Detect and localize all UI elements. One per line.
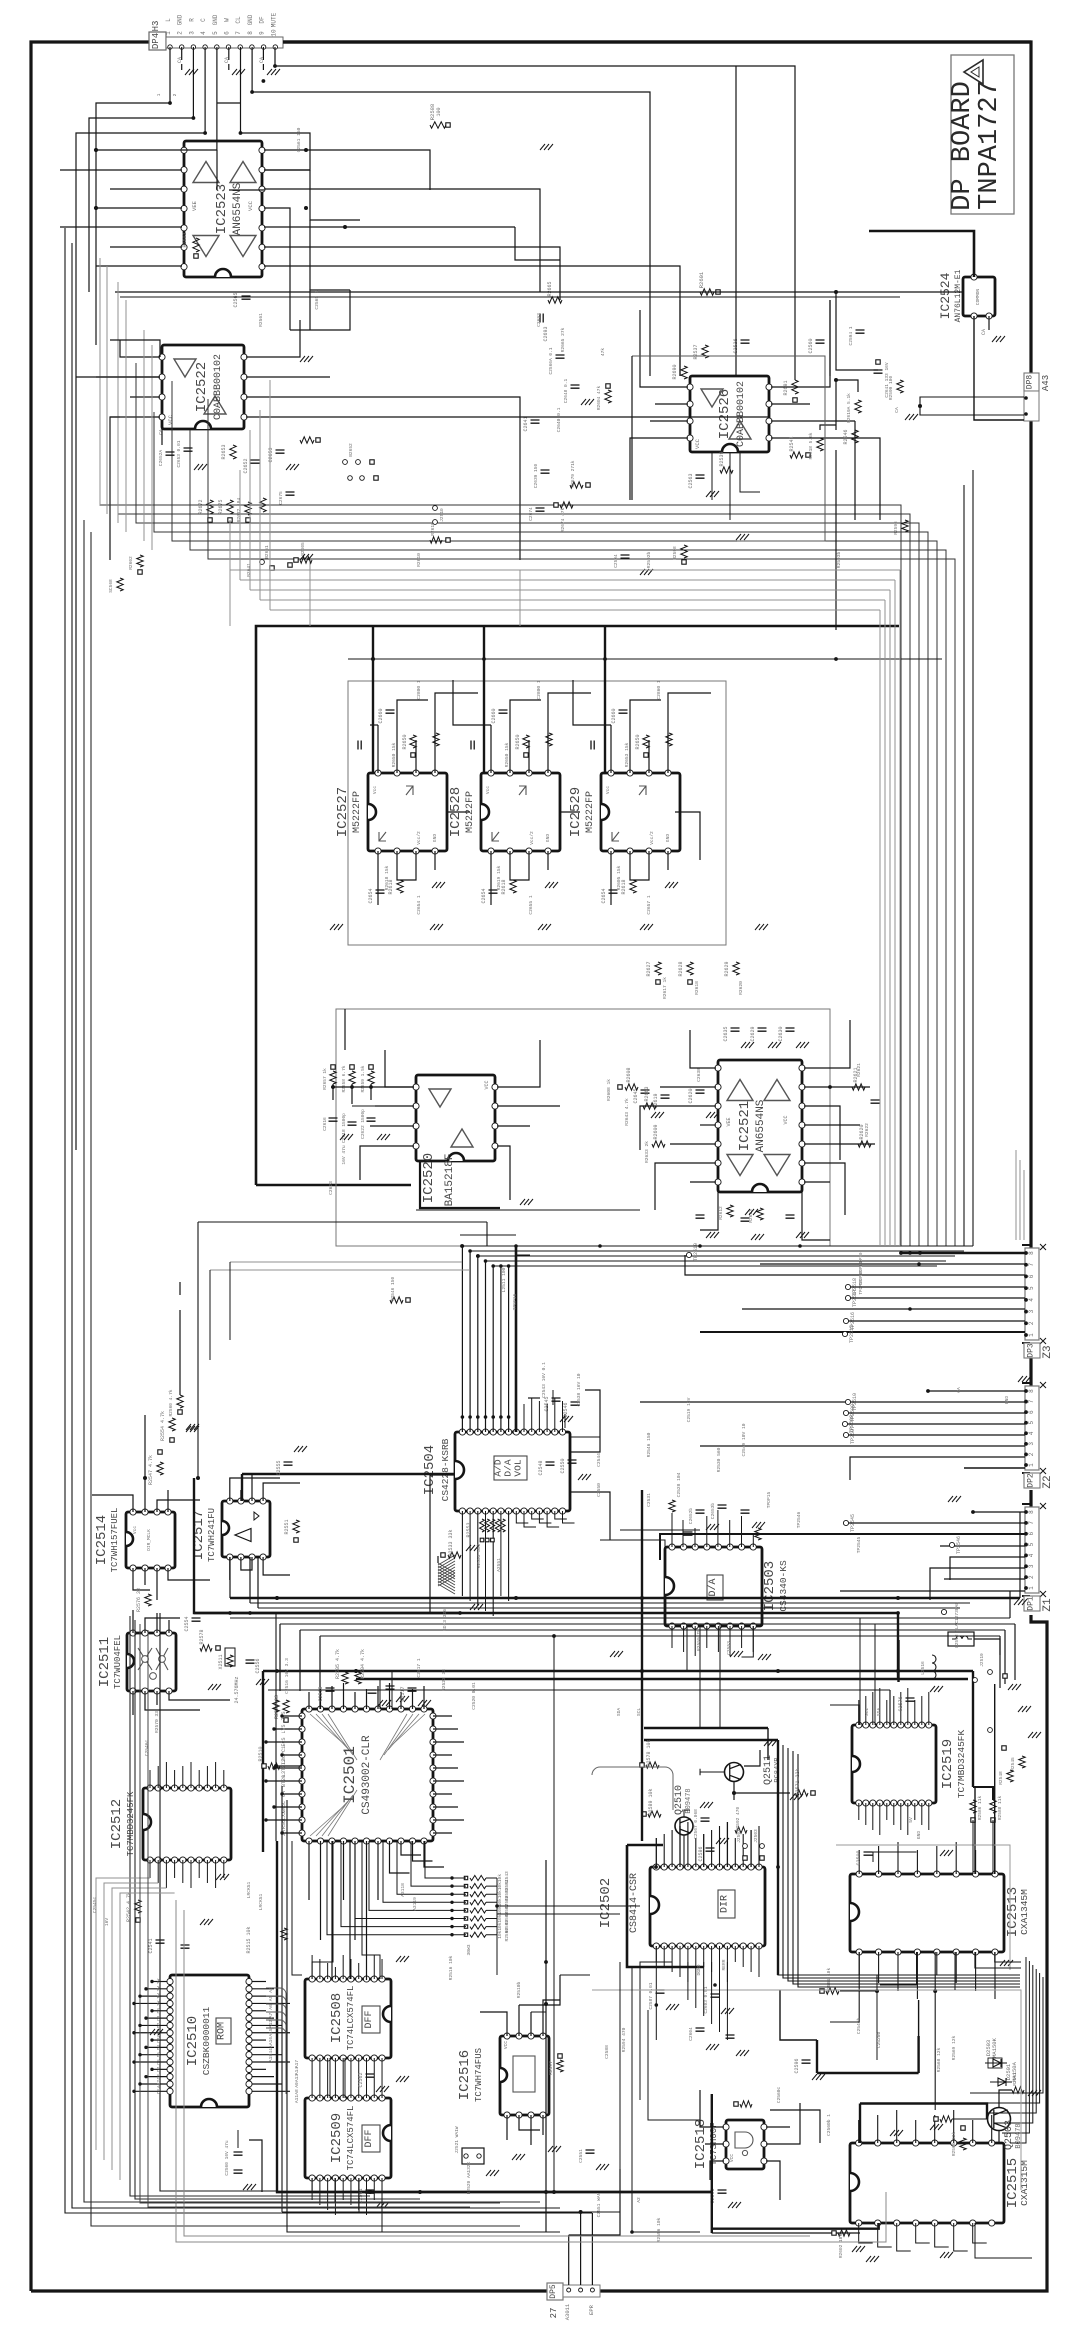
- svg-text:R2592b: R2592b: [646, 551, 652, 568]
- svg-text:VCC: VCC: [167, 414, 174, 425]
- wire: [530, 2115, 532, 2145]
- svg-text:BA15218F: BA15218F: [444, 1154, 456, 1207]
- wire: [140, 2054, 168, 2056]
- wire: [554, 1398, 556, 1432]
- wire: [252, 2083, 283, 2085]
- wire: [531, 2011, 546, 2013]
- svg-text:R2602 10k: R2602 10k: [838, 2234, 844, 2259]
- wire: [241, 1474, 243, 1501]
- wire: [92, 1495, 133, 1512]
- bus elbows ROM to DFF: [266, 1988, 286, 2094]
- svg-text:RERR: RERR: [721, 1959, 727, 1970]
- wire: [858, 1952, 860, 1975]
- wire: [401, 1841, 421, 1855]
- junction dot: [450, 1901, 453, 1904]
- svg-text:TP2517: TP2517: [852, 1289, 858, 1307]
- bus stub labels a: [268, 1987, 274, 2062]
- svg-text:IC2526: IC2526: [717, 389, 733, 439]
- wire: [700, 1192, 718, 1230]
- wire: [897, 1613, 899, 1679]
- res R2554: [160, 1411, 199, 1442]
- wire: [327, 2178, 329, 2210]
- resistor R2665: [547, 281, 562, 303]
- junction dot: [499, 1415, 503, 1419]
- wire: [447, 811, 470, 813]
- wire: [668, 693, 711, 773]
- wire: [252, 1988, 275, 1990]
- wire: [342, 1955, 344, 1979]
- wire: [96, 47, 170, 292]
- wire: [152, 2039, 168, 2041]
- resistor R2588: [429, 104, 450, 128]
- wire: [632, 1967, 700, 2232]
- wire: [734, 1792, 790, 1794]
- svg-text:DIR: DIR: [720, 1895, 731, 1913]
- wire: [644, 1739, 778, 1741]
- wire: [506, 2115, 508, 2140]
- wire: [543, 2000, 560, 2036]
- svg-text:LRCK51: LRCK51: [258, 1893, 264, 1910]
- svg-text:C2560 16V 47u: C2560 16V 47u: [224, 2140, 230, 2175]
- wire: [836, 380, 858, 430]
- svg-text:VCC: VCC: [484, 1080, 490, 1089]
- svg-text:C2555: C2555: [276, 1460, 282, 1475]
- wire: [952, 2118, 987, 2120]
- svg-text:C2556: C2556: [255, 1658, 261, 1673]
- misc right parts: [988, 1728, 1014, 1785]
- res R2561: [820, 1968, 839, 1995]
- wire: [975, 1850, 977, 1874]
- wire: [264, 189, 540, 230]
- res R2674: [554, 502, 573, 532]
- svg-text:R2675: R2675: [218, 499, 224, 514]
- svg-text:R2586 11k: R2586 11k: [977, 1796, 983, 1821]
- svg-text:DIR_MCLK: DIR_MCLK: [146, 1529, 152, 1551]
- wire: [369, 1841, 452, 1910]
- svg-text:A12: A12: [268, 2020, 274, 2028]
- wire: [156, 1691, 158, 1705]
- connector DP8 A43: [1024, 373, 1051, 421]
- wire: [916, 2223, 930, 2243]
- wire: [400, 1692, 402, 1709]
- wire: [547, 1511, 559, 1527]
- gnd ROM: [150, 1956, 409, 2082]
- wire: [515, 1246, 518, 1432]
- wire: [729, 452, 731, 520]
- wire: [157, 1500, 200, 1512]
- wire: [553, 1636, 555, 2192]
- svg-text:10k: 10k: [497, 1914, 503, 1922]
- wire: [804, 1163, 845, 1215]
- wire: [519, 2115, 540, 2130]
- svg-text:EPR: EPR: [588, 2304, 595, 2315]
- svg-text:C2563: C2563: [688, 473, 694, 488]
- wire: [365, 1967, 367, 1979]
- wire: [424, 1841, 444, 1867]
- wire: [146, 1988, 168, 1990]
- svg-text:10: 10: [270, 29, 277, 37]
- wire: [241, 47, 311, 170]
- wire: [660, 1534, 1025, 1560]
- svg-text:VCC: VCC: [729, 2154, 735, 2162]
- wire: [350, 2178, 352, 2205]
- wire: [893, 1696, 895, 1725]
- svg-text:R2561 10k: R2561 10k: [826, 1968, 832, 1993]
- wire: [741, 1516, 743, 1547]
- junction dot: [450, 1909, 453, 1912]
- wire: [921, 1803, 923, 1825]
- svg-text:9: 9: [259, 31, 266, 35]
- regulator IC2524 AN76L12M-E1: [938, 269, 995, 322]
- svg-text:Z2: Z2: [1042, 1475, 1054, 1488]
- wire: [320, 1635, 1000, 1637]
- res R2571: [795, 1768, 815, 1796]
- wire: [490, 851, 492, 905]
- wire: [148, 1630, 470, 2207]
- wire: [901, 1252, 1025, 1254]
- wire: [279, 1624, 281, 1691]
- wire: [76, 47, 205, 1150]
- wire: [879, 1688, 881, 1725]
- svg-text:C2641 133 16V: C2641 133 16V: [884, 362, 890, 397]
- wire: [528, 740, 530, 773]
- svg-text:CA: CA: [259, 57, 265, 63]
- svg-text:C2800 1: C2800 1: [416, 680, 422, 700]
- wire: [252, 2010, 267, 2012]
- wire: [483, 626, 485, 773]
- wire: [216, 150, 218, 190]
- wire: [311, 2178, 313, 2200]
- wire: [371, 1125, 414, 1127]
- svg-text:R2620: R2620: [738, 981, 744, 995]
- svg-text:R2596: R2596: [893, 521, 899, 535]
- wire: [663, 1834, 665, 1867]
- svg-text:A8: A8: [294, 2089, 300, 2095]
- wire: [711, 1962, 713, 2024]
- wire: [430, 1475, 455, 1613]
- wire: [252, 2017, 275, 2019]
- svg-text:IC2503: IC2503: [762, 1561, 778, 1611]
- svg-text:30W3: 30W3: [466, 1944, 472, 1955]
- wire: [515, 1400, 517, 1432]
- wire: [268, 1689, 890, 1691]
- resistor R2546: [843, 429, 858, 444]
- svg-text:VEE: VEE: [726, 1117, 732, 1126]
- wire: [309, 220, 311, 290]
- wire: [229, 1557, 231, 1598]
- svg-text:DGND: DGND: [696, 1964, 702, 1975]
- wire: [560, 811, 580, 813]
- wire: [252, 2024, 283, 2026]
- DAC IC2504 CS4228-KSRB: [422, 1429, 570, 1514]
- wire: [675, 812, 700, 860]
- wire: [604, 626, 606, 773]
- wire: [251, 1474, 253, 1501]
- wire: [685, 1255, 1025, 1275]
- wire: [667, 851, 669, 870]
- wire: [848, 1412, 1025, 1414]
- wire: [140, 1995, 168, 1997]
- svg-text:TP2507: TP2507: [850, 1426, 856, 1444]
- junction dot: [507, 1415, 511, 1419]
- wire: [711, 2094, 713, 2233]
- wire: [377, 725, 379, 773]
- res R2595: [832, 2230, 850, 2258]
- cap C2648: [563, 379, 594, 405]
- gnd near Q2510: [700, 1802, 713, 1808]
- svg-text:CS4340-KS: CS4340-KS: [778, 1560, 789, 1612]
- svg-text:C2652b: C2652b: [688, 1508, 694, 1525]
- wire: [397, 700, 428, 773]
- svg-text:VOL: VOL: [513, 1459, 524, 1476]
- wire: [372, 626, 374, 773]
- wire: [350, 2058, 352, 2098]
- res R2612 pair: [718, 1205, 763, 1223]
- wire: [198, 1770, 200, 1788]
- wire: [240, 1490, 242, 1501]
- svg-text:2: 2: [172, 93, 178, 96]
- wire: [377, 1686, 379, 1709]
- svg-text:VCC: VCC: [247, 200, 254, 211]
- wire: [699, 1636, 701, 1728]
- wire: [546, 1404, 548, 1432]
- wire: [817, 2072, 919, 2074]
- wire: [879, 480, 881, 520]
- wire: [899, 570, 901, 1246]
- svg-text:C2515: C2515: [318, 1686, 324, 1701]
- svg-text:C2596: C2596: [794, 2058, 800, 2073]
- wire: [742, 1946, 744, 1967]
- res R2650c: [108, 578, 123, 593]
- cap C2509: [856, 1850, 873, 1865]
- svg-text:10k: 10k: [497, 1890, 503, 1898]
- wire: [229, 1262, 231, 1340]
- svg-text:C2550: C2550: [560, 1458, 566, 1473]
- wire: [370, 724, 378, 726]
- wire: [804, 1143, 875, 1145]
- wire: [900, 1803, 902, 1830]
- wire: [327, 1841, 452, 1935]
- wire: [508, 1266, 510, 1432]
- wire: [125, 300, 127, 532]
- wire: [874, 1624, 876, 1725]
- wire: [766, 2126, 790, 2128]
- wire: [700, 1124, 716, 1126]
- res R2589: [642, 1788, 661, 1817]
- svg-text:C2545c: C2545c: [92, 1896, 98, 1913]
- junction dot: [552, 2190, 556, 2194]
- wire: [687, 1822, 689, 1867]
- wire: [256, 1184, 411, 1187]
- wire: [174, 1860, 176, 1878]
- wire: [934, 1952, 936, 2110]
- junction dots dp4: [168, 101, 172, 105]
- res R2672b: [236, 498, 251, 523]
- wire: [246, 376, 330, 378]
- svg-text:R2643 4.7k: R2643 4.7k: [624, 1098, 630, 1126]
- wire: [76, 376, 160, 378]
- svg-text:R2541: R2541: [789, 436, 795, 451]
- svg-text:ECS: ECS: [281, 1737, 287, 1746]
- wire: [134, 2090, 168, 2092]
- svg-text:R2504 4.7k: R2504 4.7k: [360, 1649, 366, 1679]
- op-amp IC2527 M5222FP: [335, 770, 447, 854]
- wire: [391, 1671, 393, 1709]
- wire: [804, 1106, 840, 1160]
- svg-text:C2554: C2554: [184, 1616, 190, 1631]
- wire: [350, 1959, 352, 1979]
- wire: [210, 1269, 470, 1271]
- wire: [793, 1751, 1020, 1984]
- caps under IC2522: [158, 429, 207, 470]
- capacitor C2693: [540, 314, 549, 342]
- wire: [570, 1390, 600, 1452]
- wire: [283, 40, 1031, 43]
- junction dots bus7: [228, 1611, 232, 1615]
- wire: [263, 1557, 290, 1575]
- svg-text:C2638: C2638: [696, 1068, 702, 1082]
- wire: [729, 1520, 731, 1547]
- wire: [146, 2017, 168, 2019]
- svg-text:2: 2: [177, 31, 184, 35]
- wire: [916, 1952, 918, 1999]
- wire: [974, 316, 1024, 420]
- wire: [390, 1841, 410, 1873]
- junction dot: [484, 1415, 488, 1419]
- res R2593: [734, 2101, 752, 2107]
- res R2545: [1010, 1756, 1025, 1771]
- wire: [548, 693, 591, 773]
- wire: [381, 2058, 383, 2098]
- wire: [973, 1511, 1025, 1513]
- resistor cluster near IC2523: [198, 498, 266, 522]
- svg-text:5: 5: [1028, 1421, 1035, 1425]
- caps row under IC2502: [688, 2027, 749, 2056]
- wire: [640, 1401, 1025, 1403]
- wire: [477, 1511, 479, 1606]
- wire: [1002, 1961, 1029, 2133]
- svg-text:R2633 2k: R2633 2k: [644, 1141, 650, 1163]
- svg-text:SDA: SDA: [876, 1708, 882, 1717]
- wire: [972, 2120, 974, 2143]
- wire: [146, 2046, 168, 2048]
- wire: [486, 1222, 488, 1246]
- wire: [917, 2036, 919, 2073]
- svg-text:R2672: R2672: [198, 499, 204, 514]
- svg-text:C2860 1: C2860 1: [656, 680, 662, 700]
- wire: [433, 1741, 464, 1743]
- electrolytic under x368: [368, 879, 403, 903]
- wire: [972, 1820, 974, 1874]
- wire: [497, 1905, 640, 1907]
- svg-text:R2610: R2610: [416, 553, 422, 567]
- connector Z2 DP2: [1022, 1382, 1054, 1489]
- wire: [944, 1578, 1025, 1580]
- wire: [135, 1620, 420, 2199]
- gnd IC2513 top: [940, 1850, 1013, 1966]
- wire: [872, 1692, 874, 1725]
- wire: [1014, 1624, 1016, 1680]
- svg-text:C2546c: C2546c: [144, 1739, 150, 1756]
- wire: [879, 1803, 881, 1835]
- svg-text:C2541: C2541: [148, 1938, 154, 1953]
- res cluster right of IC2511: [199, 1629, 269, 1690]
- svg-text:IC2519: IC2519: [940, 1739, 956, 1789]
- svg-text:R2530 560: R2530 560: [716, 1447, 722, 1472]
- wire: [470, 1250, 964, 1252]
- coil L2513 TLAC1273BAL: [948, 1602, 974, 1648]
- resistor R2541: [789, 436, 810, 458]
- svg-text:1: 1: [1028, 1333, 1035, 1337]
- svg-text:R2505 4.7k: R2505 4.7k: [335, 1649, 341, 1679]
- wire: [420, 1161, 500, 1208]
- wire: [846, 1434, 1025, 1436]
- res R2581: [274, 1695, 289, 1722]
- wire: [846, 1522, 1025, 1524]
- wire: [542, 2115, 544, 2135]
- wire: [878, 1952, 880, 1983]
- wire: [263, 1670, 973, 1672]
- wire: [118, 394, 910, 1246]
- svg-text:R2516 10k: R2516 10k: [448, 1955, 454, 1980]
- wire: [531, 1398, 533, 1432]
- diode D2503 MA150K: [985, 2037, 1007, 2068]
- svg-text:J2521 WA1W: J2521 WA1W: [454, 2126, 460, 2153]
- wire: [932, 1635, 948, 1637]
- svg-text:C2550: C2550: [596, 1483, 602, 1497]
- svg-text:DP1: DP1: [1027, 1596, 1036, 1611]
- thin box around lower analog group: [336, 1009, 830, 1246]
- svg-text:CA: CA: [158, 429, 164, 435]
- wire: [264, 150, 430, 190]
- wire: [319, 2178, 321, 2205]
- wire: [630, 438, 688, 500]
- wire: [973, 2223, 987, 2243]
- wire: [717, 1510, 719, 1547]
- wire: [858, 1850, 860, 1874]
- wire: [683, 1835, 685, 1867]
- junction dot: [450, 1893, 453, 1896]
- svg-text:DFF: DFF: [364, 2129, 375, 2147]
- wire: [312, 1841, 333, 1979]
- wire: [686, 1626, 688, 1671]
- svg-text:Vcc/2: Vcc/2: [416, 831, 422, 845]
- wire: [229, 189, 264, 191]
- svg-text:10k: 10k: [497, 1930, 503, 1938]
- wire: [780, 1990, 817, 2040]
- wire: [320, 1841, 322, 1940]
- wire: [528, 1397, 540, 1399]
- wire: [930, 1568, 1025, 1600]
- svg-text:IC2527: IC2527: [335, 787, 351, 837]
- wire: [860, 2104, 987, 2120]
- wire: [412, 1689, 414, 1709]
- svg-text:C2520 0.01: C2520 0.01: [471, 1682, 477, 1710]
- jumper row mid: [348, 476, 378, 481]
- wire: [726, 1946, 728, 1982]
- crosshatch block: [438, 1555, 455, 1594]
- wire: [156, 1613, 158, 1633]
- wire: [72, 243, 560, 2208]
- cap C2561: [358, 2188, 389, 2208]
- res R2547: [148, 1450, 163, 1485]
- svg-text:TC74LCX574FL: TC74LCX574FL: [346, 2106, 356, 2171]
- svg-text:C2538 16V 10: C2538 16V 10: [576, 1373, 582, 1406]
- DAC IC2503 CS4340-KS: [665, 1544, 789, 1629]
- junction dots bus: [461, 1244, 465, 1248]
- flip-flop IC2516 TC7WH74FUS: [457, 2033, 549, 2118]
- svg-text:A6: A6: [268, 2004, 274, 2010]
